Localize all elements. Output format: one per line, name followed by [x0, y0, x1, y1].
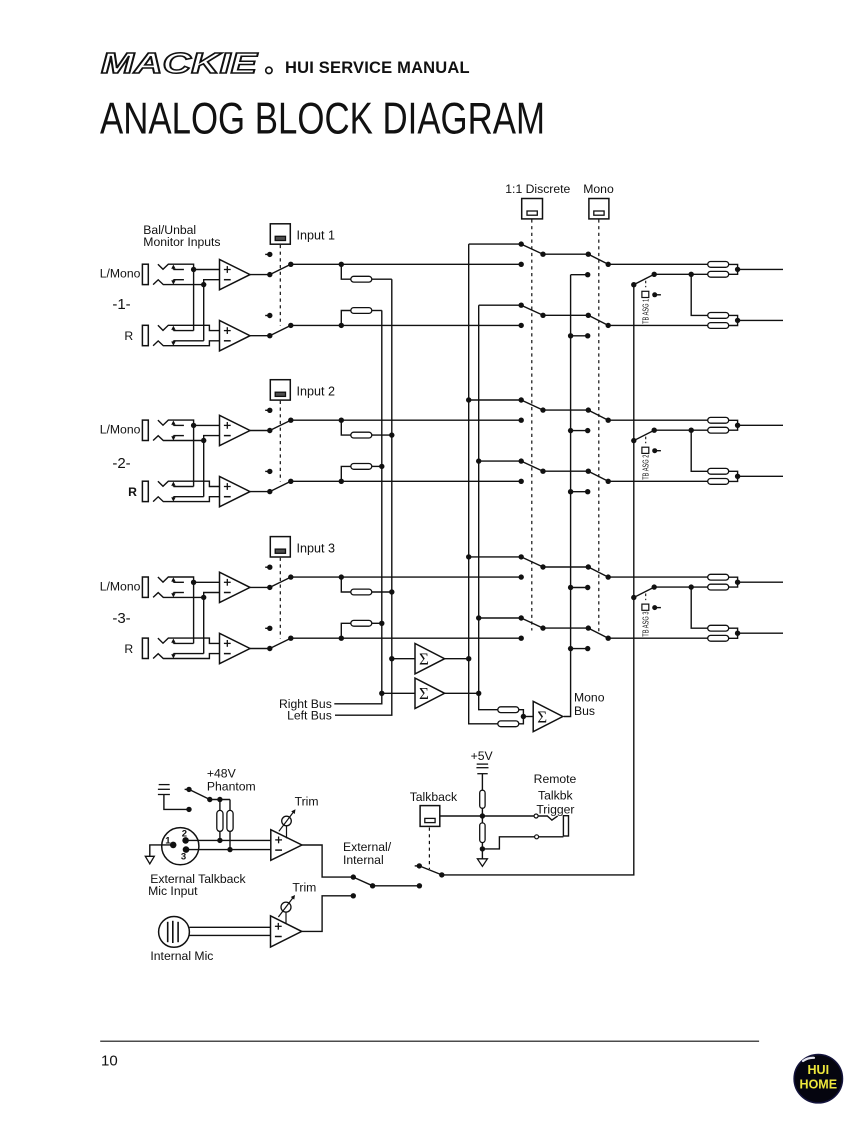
control dashed line from 1:1 Discrete button	[531, 219, 533, 630]
wire J2-L ring normal feed to J2-R	[203, 441, 205, 497]
switch S3B arm	[270, 638, 291, 648]
svg-text:Mono: Mono	[583, 182, 614, 196]
pushbutton 1:1 Discrete	[522, 199, 543, 219]
node J2-L ring junction	[201, 438, 206, 443]
node channel 1 L discrete contact	[519, 262, 524, 267]
resistor channel 3 L output	[707, 576, 709, 578]
switch S1B open contact	[265, 315, 270, 317]
wire discrete R bus vertical	[479, 305, 498, 710]
op-amp U2A	[220, 415, 251, 445]
wire op-amp U3A - input	[204, 593, 220, 598]
switch mono channel 3 L	[588, 567, 608, 577]
remote trigger jack tip contact	[538, 816, 558, 820]
op-amp U3A	[220, 572, 251, 602]
node channel 3 L discrete contact	[519, 574, 524, 579]
op-amp U6 (mono bus sum)	[533, 701, 563, 731]
wire channel 2 R signal row	[291, 480, 521, 482]
resistor channel 2 right-bus feed	[341, 466, 351, 481]
XLR connector external talkback mic	[162, 828, 199, 865]
wire op-amp U2A output	[250, 430, 270, 432]
wire J1-L tip normal feed to J1-R	[193, 270, 195, 331]
switch S3B open contact	[265, 627, 270, 629]
resistor channel 2 left-bus feed	[341, 420, 351, 435]
remote trigger jack tip terminal	[534, 814, 538, 818]
switch discrete channel 1 L	[519, 241, 524, 246]
svg-text:+48V: +48V	[207, 766, 237, 780]
control dashed line from Input 2 button	[279, 401, 281, 482]
switch discrete channel 3 L	[519, 554, 524, 559]
wire op-amp U2B output	[250, 491, 270, 493]
wire mono bus tap channel 3 R	[571, 648, 588, 650]
svg-text:Mic Input: Mic Input	[148, 884, 198, 898]
switch S2B pivot	[267, 489, 272, 494]
jack J2-L ring normal contact arrow	[172, 436, 174, 438]
svg-text:MACKIE: MACKIE	[101, 48, 258, 80]
jack J2-R tip normal contact arrow	[172, 485, 174, 487]
jack J3-L (L/Mono input) sleeve	[142, 577, 148, 597]
node phantom ground contact	[186, 807, 191, 812]
node J1-L ring junction	[201, 282, 206, 287]
svg-text:Σ: Σ	[419, 684, 429, 703]
switch phantom power	[185, 788, 189, 790]
wire channel 2 R mid	[543, 470, 588, 472]
resistor channel 1 L output	[707, 263, 709, 265]
jack J1-L ring contact	[153, 280, 204, 285]
node channel 2 L discrete contact	[519, 418, 524, 423]
switch TB ASG 2	[631, 438, 636, 443]
wire channel 2 L mid	[543, 409, 588, 411]
wire U8 output	[302, 896, 354, 932]
svg-text:Trim: Trim	[292, 880, 316, 894]
jack J3-R tip normal contact arrow	[172, 642, 174, 644]
wire XLR pin 2 to op-amp U7 +	[186, 839, 271, 841]
jack J1-L tip contact	[158, 264, 194, 269]
control dashed line from Input 1 button	[279, 245, 281, 326]
switch discrete channel 3 R	[519, 615, 524, 620]
wire XLR pin 3 to op-amp U7 -	[186, 849, 271, 851]
control dashed line from Talkback button	[428, 828, 430, 870]
node discrete R bus sum output	[476, 691, 481, 696]
jack J1-L tip normal contact arrow	[172, 268, 174, 270]
switch S2B open contact	[265, 470, 270, 472]
wire U5 output	[445, 692, 479, 694]
node J2-L tip junction	[191, 423, 196, 428]
wire channel 2 R output junction	[729, 471, 738, 481]
ground symbol XLR	[145, 856, 154, 864]
switch discrete channel 1 R	[519, 303, 524, 308]
node discrete L bus sum output	[466, 656, 471, 661]
jack J3-R (R input) sleeve	[142, 638, 148, 658]
node trigger divider tap	[480, 813, 485, 818]
svg-text:Σ: Σ	[419, 650, 429, 669]
svg-text:2: 2	[182, 829, 187, 840]
svg-text:-3-: -3-	[112, 610, 130, 627]
pushbutton Input 1	[270, 224, 290, 244]
wire mono bus tap channel 2 R	[571, 491, 588, 493]
svg-text:Bus: Bus	[574, 704, 595, 718]
switch S1A open contact	[265, 253, 270, 255]
remote trigger jack ring contact	[539, 836, 564, 838]
node channel 2 right-bus junction	[379, 464, 384, 469]
svg-text:+5V: +5V	[471, 749, 494, 763]
node J1-L tip junction	[191, 267, 196, 272]
svg-text:TB ASG 3: TB ASG 3	[641, 612, 650, 637]
svg-text:1:1 Discrete: 1:1 Discrete	[505, 182, 570, 196]
wire op-amp U1A - input	[204, 280, 220, 285]
svg-text:Input 2: Input 2	[297, 385, 336, 399]
wire right bus vertical	[334, 310, 382, 703]
wire op-amp U1A output	[250, 274, 270, 276]
switch S3B pivot	[267, 646, 272, 651]
node J3-L ring junction	[201, 595, 206, 600]
switch S3A arm	[270, 577, 291, 587]
resistor channel 1 left-bus feed	[341, 264, 351, 279]
jack J1-L ring normal contact arrow	[172, 280, 174, 282]
resistor mono sum upper	[498, 707, 519, 713]
resistor channel 2 L talkback	[708, 427, 729, 433]
op-amp U1A	[220, 259, 251, 289]
HUI HOME button	[794, 1055, 842, 1103]
switch TB ASG 3	[631, 595, 636, 600]
resistor channel 2 R talkback	[708, 468, 729, 474]
svg-text:R: R	[124, 642, 133, 656]
jack J1-R tip contact	[158, 325, 220, 330]
jack J2-L ring contact	[153, 436, 204, 441]
wire op-amp U3A output	[250, 586, 270, 588]
wire mono bus vertical	[564, 275, 571, 717]
node channel 2 R branch	[339, 479, 344, 484]
trim pot internal	[285, 912, 287, 923]
svg-text:10: 10	[101, 1053, 118, 1070]
svg-text:Phantom: Phantom	[207, 780, 256, 794]
remote trigger jack sleeve	[563, 816, 568, 836]
wire mono bus tap channel 2 L	[571, 430, 588, 432]
switch TB ASG 1	[631, 282, 636, 287]
resistor channel 3 L talkback	[708, 584, 729, 590]
wire channel 3 L output row	[608, 576, 707, 578]
wire mono bus tap channel 3 L	[571, 587, 588, 589]
op-amp U5 (right bus sum)	[415, 678, 445, 708]
wire remote trigger ring	[482, 837, 534, 849]
wire channel 1 L signal row	[291, 263, 521, 265]
wire U4 output	[445, 658, 469, 660]
wire right bus to sum amp U5	[382, 692, 415, 694]
wire left bus vertical	[335, 279, 392, 715]
svg-text:Σ: Σ	[537, 707, 547, 726]
switch S2A pivot	[267, 428, 272, 433]
node channel 3 right-bus junction	[379, 621, 384, 626]
svg-text:Internal Mic: Internal Mic	[150, 949, 213, 963]
pushbutton Mono	[589, 199, 609, 219]
resistor channel 3 R output	[708, 635, 729, 641]
node channel 2 left-bus junction	[389, 432, 394, 437]
TB ASG 3 control box	[642, 604, 649, 610]
resistor channel 3 left-bus feed	[341, 577, 351, 592]
XLR pin 2	[182, 837, 189, 844]
node right bus to sum amp	[379, 691, 384, 696]
wire op-amp U1B output	[250, 335, 270, 337]
node internal contact	[351, 893, 356, 898]
switch S1A pivot	[267, 272, 272, 277]
wire op-amp U3B output	[250, 648, 270, 650]
control dashed line from Input 3 button	[279, 558, 281, 639]
svg-text:Remote: Remote	[534, 772, 577, 786]
wire J3-L ring normal feed to J3-R	[203, 597, 205, 653]
switch S1A arm	[270, 264, 291, 274]
svg-text:HOME: HOME	[800, 1078, 838, 1092]
jack J2-L tip normal contact arrow	[172, 424, 174, 426]
XLR pin 1	[170, 842, 177, 849]
jack J3-R tip contact	[158, 638, 220, 643]
switch S3A pivot	[267, 585, 272, 590]
wire channel 2 L output row	[608, 419, 707, 421]
node trigger divider bottom	[480, 846, 485, 851]
node channel 1 R branch	[339, 323, 344, 328]
jack J2-L (L/Mono input) sleeve	[142, 420, 148, 440]
jack J1-L (L/Mono input) sleeve	[142, 264, 148, 284]
node phantom R2 to pin 3	[227, 847, 232, 852]
jack J1-R ring normal contact arrow	[172, 341, 174, 343]
TB ASG 1 control contact	[652, 292, 657, 297]
jack J1-R tip normal contact arrow	[172, 329, 174, 331]
wire channel 3 R output row	[608, 637, 707, 639]
svg-text:-2-: -2-	[112, 455, 130, 472]
wire op-amp U2A - input	[204, 436, 220, 441]
node left bus to sum amp	[389, 656, 394, 661]
wire channel 1 R signal row	[291, 324, 521, 326]
svg-text:Monitor Inputs: Monitor Inputs	[143, 235, 220, 249]
svg-text:L/Mono: L/Mono	[100, 423, 141, 437]
wire J3-L tip normal feed to J3-R	[193, 582, 195, 643]
wire XLR pin 1 to ground	[150, 845, 173, 856]
switch S3A open contact	[265, 566, 270, 568]
node channel 3 R discrete contact	[519, 636, 524, 641]
+48V phantom supply rail symbol	[159, 784, 170, 786]
resistor channel 3 R talkback	[708, 625, 729, 631]
switch external/internal	[353, 877, 372, 886]
wire channel 1 L output row	[608, 263, 707, 265]
wire channel 1 R discrete pole feed	[479, 304, 522, 306]
wire mono bus tap channel 1 L	[571, 274, 588, 276]
svg-text:3: 3	[181, 851, 186, 862]
svg-text:L/Mono: L/Mono	[100, 267, 141, 281]
wire op-amp U1A + input	[194, 269, 220, 271]
jack J2-L tip contact	[158, 420, 194, 425]
resistor channel 2 R output	[708, 479, 729, 485]
op-amp U7 (external talkback preamp)	[271, 830, 302, 861]
resistor phantom R1	[219, 800, 221, 811]
wire channel 3 R signal row	[291, 637, 521, 639]
switch mono channel 2 L	[588, 410, 608, 420]
+5V supply rail symbol	[477, 763, 488, 765]
jack J3-R ring contact	[153, 654, 219, 659]
wire trigger divider to ground	[481, 849, 483, 859]
wire channel 2 L signal row	[291, 419, 521, 421]
switch S1B pivot	[267, 333, 272, 338]
node channel 1 L branch	[339, 262, 344, 267]
wire channel 3 L signal row	[291, 576, 521, 578]
wire channel 1 R output row	[608, 324, 707, 326]
remote trigger jack ring terminal	[535, 835, 539, 839]
resistor +5V divider R4	[481, 816, 483, 823]
XLR pin 3	[183, 846, 190, 853]
wire channel 1 L mid	[543, 253, 588, 255]
switch discrete channel 2 L	[519, 397, 524, 402]
wire left bus to sum amp U4	[392, 658, 415, 660]
svg-text:HUI: HUI	[808, 1063, 830, 1077]
svg-text:Talkbk: Talkbk	[538, 788, 573, 802]
switch discrete channel 2 R	[519, 458, 524, 463]
control dashed line from Mono button	[598, 219, 600, 634]
switch mono channel 3 R	[588, 628, 608, 638]
wire op-amp U3A + input	[194, 581, 220, 583]
ground symbol trigger	[477, 859, 487, 867]
wire channel 1 R output junction	[729, 315, 738, 325]
wire channel 2 L output junction	[729, 420, 738, 430]
node channel 3 L branch	[339, 574, 344, 579]
switch talkback enable	[419, 866, 442, 875]
wire mono bus tap channel 1 R	[571, 335, 588, 337]
trim pot external	[286, 826, 288, 839]
wire op-amp U2A + input	[194, 424, 220, 426]
resistor channel 1 L talkback	[708, 271, 729, 277]
resistor channel 1 R output	[708, 323, 729, 329]
switch S1B arm	[270, 325, 291, 335]
wire channel 2 R output row	[608, 480, 707, 482]
jack J3-L ring normal contact arrow	[172, 593, 174, 595]
op-amp U2B	[220, 476, 251, 506]
resistor +5V divider R3	[480, 790, 485, 808]
op-amp U3B	[220, 633, 251, 663]
svg-text:Input 3: Input 3	[297, 541, 336, 555]
switch mono channel 1 L	[588, 254, 608, 264]
wire TB feed channel 3	[654, 586, 707, 588]
wire channel 2 R discrete pole feed	[479, 460, 522, 462]
wire J2-L tip normal feed to J2-R	[193, 425, 195, 486]
wire channel 3 R discrete pole feed	[479, 617, 522, 619]
wire U7 output	[302, 845, 353, 877]
svg-text:Mono: Mono	[574, 690, 605, 704]
op-amp U1B	[220, 321, 251, 351]
TB ASG 1 control dash	[645, 281, 647, 288]
pushbutton Talkback	[420, 806, 440, 827]
resistor channel 1 R talkback	[708, 313, 729, 319]
op-amp U8 (internal mic preamp)	[271, 916, 302, 947]
wire J1-L ring normal feed to J1-R	[203, 285, 205, 341]
resistor channel 2 L output	[707, 419, 709, 421]
jack J1-R (R input) sleeve	[142, 325, 148, 345]
svg-text:-1-: -1-	[112, 296, 130, 313]
node phantom R1 to pin 2	[217, 838, 222, 843]
node channel 1 R discrete contact	[519, 323, 524, 328]
wire TB feed channel 1	[654, 273, 707, 275]
op-amp U4 (left bus sum)	[415, 644, 445, 674]
wire TB feed channel 2	[654, 429, 707, 431]
svg-text:Trim: Trim	[295, 795, 319, 809]
wire mono sum junction	[519, 710, 524, 724]
wire channel 3 R output junction	[729, 628, 738, 638]
svg-text:HUI SERVICE MANUAL: HUI SERVICE MANUAL	[285, 59, 470, 77]
TB ASG 2 control box	[642, 447, 649, 453]
node channel 3 R branch	[339, 636, 344, 641]
wire channel 2 L discrete pole feed	[469, 399, 522, 401]
wire talkback trigger row	[440, 815, 534, 817]
jack J2-R ring normal contact arrow	[172, 497, 174, 499]
jack J3-L tip normal contact arrow	[172, 580, 174, 582]
jack J3-R ring normal contact arrow	[172, 654, 174, 656]
node channel 2 L branch	[339, 418, 344, 423]
svg-text:Internal: Internal	[343, 853, 384, 867]
wire channel 3 R mid	[543, 627, 588, 629]
svg-text:ANALOG BLOCK DIAGRAM: ANALOG BLOCK DIAGRAM	[100, 94, 545, 143]
wire internal mic to U8 +	[189, 926, 270, 928]
wire channel 1 L discrete pole feed	[469, 243, 522, 245]
TB ASG 3 control dash	[645, 594, 647, 601]
wire channel 3 L output junction	[729, 577, 738, 587]
resistor mono sum lower	[498, 721, 519, 727]
svg-text:Left Bus: Left Bus	[287, 708, 332, 722]
node channel 3 left-bus junction	[389, 589, 394, 594]
TB ASG 2 control contact	[652, 448, 657, 453]
jack J1-R ring contact	[153, 341, 219, 346]
node channel 2 R discrete contact	[519, 479, 524, 484]
svg-text:L/Mono: L/Mono	[100, 580, 141, 594]
jack J3-L tip contact	[158, 577, 194, 582]
jack J2-R ring contact	[153, 497, 219, 502]
node external contact	[351, 874, 356, 879]
wire channel 1 L output junction	[729, 264, 738, 274]
wire channel 3 L discrete pole feed	[469, 556, 522, 558]
TB ASG 3 control contact	[652, 605, 657, 610]
switch S2A open contact	[265, 409, 270, 411]
wire discrete L bus vertical	[469, 244, 498, 724]
wire channel 3 L mid	[543, 566, 588, 568]
wire talkback bus vertical	[442, 285, 634, 875]
footer rule	[100, 1040, 759, 1042]
svg-text:R: R	[128, 485, 137, 499]
jack J3-L ring contact	[153, 593, 204, 598]
svg-text:Input 1: Input 1	[297, 229, 336, 243]
resistor phantom R2	[229, 800, 231, 811]
TB ASG 1 control box	[642, 291, 649, 297]
resistor channel 3 right-bus feed	[341, 623, 351, 638]
TB ASG 2 control dash	[645, 437, 647, 444]
svg-text:Trigger: Trigger	[536, 802, 574, 816]
resistor channel 1 right-bus feed	[341, 311, 351, 326]
pushbutton Input 2	[270, 380, 290, 400]
jack J2-R (R input) sleeve	[142, 481, 148, 501]
svg-text:TB ASG 1: TB ASG 1	[641, 299, 650, 324]
switch S2B arm	[270, 481, 291, 491]
Mackie logo registered dot	[266, 67, 272, 73]
wire phantom feed	[210, 799, 230, 801]
switch S2A arm	[270, 420, 291, 430]
node J3-L tip junction	[191, 580, 196, 585]
switch mono channel 1 R	[588, 315, 608, 325]
wire internal mic to U8 -	[189, 934, 270, 936]
wire channel 1 R mid	[543, 314, 588, 316]
switch mono channel 2 R	[588, 471, 608, 481]
svg-text:Talkback: Talkback	[410, 790, 458, 804]
svg-text:TB ASG 2: TB ASG 2	[641, 455, 650, 480]
pushbutton Input 3	[270, 537, 290, 557]
svg-text:R: R	[124, 329, 133, 343]
jack J2-R tip contact	[158, 481, 220, 486]
internal microphone symbol	[159, 917, 190, 948]
